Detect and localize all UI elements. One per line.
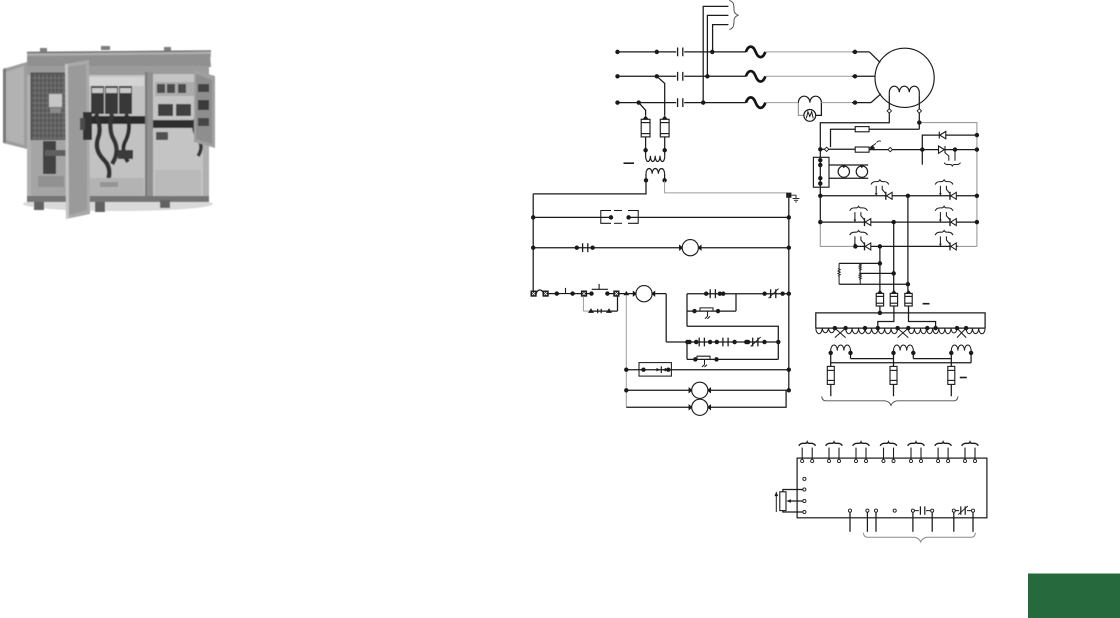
node TC1 left bbox=[763, 292, 766, 295]
PT fuse FU1 bbox=[641, 116, 650, 137]
SCR 3B bbox=[935, 231, 956, 251]
node phase C at motor bbox=[853, 101, 856, 104]
wire board lead 7 bbox=[953, 512, 955, 532]
wire field rheostat rung bbox=[820, 148, 855, 150]
node start rung bbox=[555, 292, 558, 295]
wire transfer link bbox=[687, 326, 778, 359]
bypass diode arrow 1 bbox=[588, 308, 594, 313]
node start PB right bbox=[606, 292, 609, 295]
output fuse 3 bbox=[948, 366, 955, 384]
node phase C tap bbox=[637, 101, 640, 104]
node contact lead right bbox=[591, 246, 594, 249]
output terminal 7 bbox=[952, 509, 955, 512]
wire field lead right bbox=[918, 95, 920, 109]
autotransformer winding section 4 bbox=[966, 328, 985, 334]
firing circuit brace bbox=[944, 163, 960, 166]
wire lower bypass bbox=[687, 358, 778, 360]
wire P1 bottom lead bbox=[783, 511, 803, 512]
node box terminal 2 bbox=[819, 163, 822, 166]
wire fuse tails bbox=[831, 384, 952, 396]
wire riser line 1 to source bbox=[703, 6, 728, 102]
secondary winding B bbox=[894, 345, 914, 351]
D2 cathode tick bbox=[954, 150, 956, 161]
terminal pad pot wiper bbox=[803, 499, 806, 502]
field fuse 3 bbox=[905, 290, 912, 306]
PT fuse FU2 bbox=[660, 116, 669, 137]
SCR 1B bbox=[935, 180, 956, 200]
relay coil M bbox=[633, 286, 654, 302]
wire phase A to motor (CT run) bbox=[765, 51, 852, 53]
bypass rise right bbox=[617, 296, 619, 311]
input pin pair 4 bbox=[880, 442, 897, 463]
wire rectifier DC bus bbox=[816, 313, 985, 328]
contactor contact M phase B bbox=[678, 72, 683, 81]
relay test block housing bbox=[639, 363, 671, 377]
power fuse phase B bbox=[746, 71, 766, 82]
dark bus across middle bbox=[88, 116, 189, 124]
output terminal 4 bbox=[893, 509, 896, 512]
timed contact TC1 bbox=[771, 289, 776, 298]
node FU1 lead bbox=[644, 149, 647, 152]
node row1 drop bbox=[906, 194, 909, 197]
P1 direction arrow bbox=[775, 496, 777, 513]
potentiometer P1 bbox=[780, 492, 786, 511]
field rheostat R2 bbox=[855, 147, 869, 152]
node bypass left bbox=[693, 310, 696, 313]
terminal F1 diamond bbox=[887, 109, 891, 113]
bypass diode arrow 2 bbox=[606, 308, 612, 313]
node rheostat rung at rail bbox=[819, 148, 822, 151]
terminal diamond right bbox=[888, 147, 892, 151]
wire board lead 5 bbox=[912, 512, 914, 532]
node phase B tap bbox=[655, 75, 658, 78]
wire coil rung C1 bbox=[626, 389, 789, 391]
feedback contact bbox=[915, 510, 931, 512]
left open door bbox=[3, 62, 27, 149]
node TC2 right bbox=[763, 340, 766, 343]
terminal box bbox=[813, 157, 829, 187]
balancing resistor network bbox=[838, 263, 861, 284]
wire FU1 to transformer bbox=[645, 137, 647, 156]
node PB1 right bbox=[571, 292, 574, 295]
ammeter A bbox=[804, 110, 816, 122]
D2 gate lead bbox=[945, 153, 949, 161]
wire DC bus drop B bbox=[893, 222, 895, 293]
middle open door (front) bbox=[65, 60, 90, 219]
wire board lead 3 bbox=[875, 512, 877, 532]
contactor contact M phase C bbox=[678, 98, 683, 107]
wire discharge resistor R1 leads bbox=[831, 129, 920, 147]
wire rung A bypass bbox=[687, 310, 736, 312]
right bay interior bbox=[153, 74, 203, 198]
wire field lead left down bbox=[820, 113, 889, 158]
power fuse phase C bbox=[746, 97, 766, 108]
temperature switch TS2 bbox=[697, 356, 710, 367]
contact CR1 bbox=[583, 243, 588, 252]
polarity mark bbox=[624, 162, 635, 164]
synchronous motor M1 bbox=[875, 48, 934, 107]
wire gray rail to lower rungs bbox=[625, 296, 627, 408]
wire secondary C leads bbox=[951, 351, 971, 367]
node rail X1 rung1 bbox=[532, 216, 535, 219]
wire board lead 6 bbox=[931, 512, 933, 532]
wire rung A bypass left drop bbox=[686, 294, 688, 327]
output terminal 1 bbox=[848, 509, 851, 512]
wire phase A incoming bbox=[617, 51, 677, 53]
wire motor lead A diagonal bbox=[869, 52, 880, 63]
node row2 drop bbox=[892, 221, 895, 224]
node rung2 at rail X2 bbox=[787, 246, 790, 249]
node drawout stab right bbox=[627, 216, 630, 219]
wire SCR row 1 bbox=[820, 195, 977, 197]
node contact lead bbox=[575, 246, 578, 249]
wire coupler top bbox=[829, 164, 868, 166]
diode D1 bbox=[939, 131, 946, 138]
wire secondary B leads bbox=[894, 351, 914, 367]
secondary winding C bbox=[951, 345, 971, 351]
ground terminal block bbox=[786, 193, 791, 198]
reactor coil 1 bbox=[838, 166, 849, 177]
output fuse 1 bbox=[827, 366, 834, 384]
wire phase C continue to motor bbox=[821, 102, 852, 104]
node row3 left bbox=[854, 245, 857, 248]
node C1 at rail X2 bbox=[787, 389, 790, 392]
wire network bottom bbox=[839, 283, 908, 285]
crossover X2 bbox=[898, 328, 909, 338]
node phase B at motor bbox=[853, 75, 856, 78]
polarity mark minus bbox=[923, 303, 930, 305]
node row2 right bbox=[975, 221, 978, 224]
secondary winding A bbox=[831, 345, 851, 351]
node link at rung B bbox=[777, 340, 780, 343]
bypass drop left bbox=[582, 296, 584, 311]
timed contact TC2 bbox=[753, 338, 758, 347]
node C1 left bbox=[625, 389, 628, 392]
polarity mark minus bbox=[960, 377, 967, 379]
wire riser line 3 to source bbox=[713, 25, 729, 52]
node test rung left bbox=[625, 368, 628, 371]
wire tap phase B to fuse FU2 bbox=[657, 76, 665, 115]
wire coil M drop bbox=[665, 294, 667, 342]
wire fuse1 to bus bbox=[879, 306, 881, 313]
wire P1 wiper bbox=[790, 500, 803, 502]
node test block right bbox=[667, 368, 670, 371]
terminal diamond left bbox=[824, 147, 828, 151]
node row1 right bbox=[975, 194, 978, 197]
floor shadow bbox=[23, 197, 213, 211]
node rung1 at rail X2 bbox=[787, 216, 790, 219]
wire network top bbox=[839, 262, 880, 264]
output fuse 2 bbox=[890, 366, 897, 384]
brace DC output bbox=[822, 396, 958, 405]
wire left rail X1 bbox=[532, 194, 534, 291]
node bypass right bbox=[716, 310, 719, 313]
wire secondary A leads bbox=[831, 351, 851, 367]
node lower bypass b bbox=[715, 358, 718, 361]
node winding taps bbox=[833, 327, 836, 330]
terminal pad pot top bbox=[803, 488, 806, 491]
field panel enclosure (gray) bbox=[820, 123, 977, 247]
wire relay test rung bbox=[626, 369, 789, 371]
field fuse 1 bbox=[876, 290, 883, 306]
ground bbox=[793, 199, 800, 203]
wire riser line 2 to source bbox=[707, 15, 728, 76]
wire fuse3 to winding bbox=[909, 306, 936, 328]
node row1 rail bbox=[819, 194, 822, 197]
node box terminal 3 bbox=[819, 177, 822, 180]
node phase A at motor bbox=[853, 50, 856, 53]
contact TD1 bbox=[710, 289, 715, 298]
control module board bbox=[797, 458, 987, 518]
node secondary right bbox=[663, 179, 666, 182]
wire tap phase C to fuse FU1 bbox=[639, 103, 646, 116]
bypass wire bbox=[583, 310, 595, 312]
wire rung A bypass right rise bbox=[735, 294, 737, 311]
node TC1 right bbox=[781, 292, 784, 295]
temperature switch TS1 bbox=[700, 308, 713, 319]
contactor contact M phase A bbox=[678, 48, 683, 57]
field fuse 2 bbox=[890, 290, 897, 306]
terminal block TB2 bbox=[543, 291, 548, 296]
control transformer T1 secondary bbox=[646, 168, 665, 173]
wire phase C incoming bbox=[617, 102, 677, 104]
node rung B mid bbox=[733, 340, 736, 343]
wire motor lead C diagonal bbox=[871, 94, 881, 103]
relay coil TD bbox=[689, 382, 710, 398]
right open door bbox=[194, 70, 215, 148]
rheostat adjust arrow bbox=[870, 143, 877, 148]
power fuse phase A bbox=[746, 47, 766, 58]
node FU2 lead bbox=[663, 149, 666, 152]
node secondary left bbox=[644, 179, 647, 182]
control transformer T1 primary bbox=[646, 156, 665, 162]
wire interlock rung A bbox=[687, 293, 789, 295]
bypass contact bbox=[598, 309, 602, 313]
wire board lead 1 bbox=[849, 512, 851, 532]
feedback contact adjustable bbox=[956, 510, 972, 512]
node riser junction phase C bbox=[702, 101, 705, 104]
node fuse1 bus bbox=[878, 311, 881, 314]
wire fuse2 to winding bbox=[878, 306, 894, 328]
test block contact bbox=[657, 368, 661, 372]
terminal pad spare bbox=[803, 477, 806, 480]
coupler triangle marks bbox=[842, 165, 865, 168]
SCR 2B bbox=[935, 206, 956, 226]
node row2 rail bbox=[819, 221, 822, 224]
node rung B tap2 bbox=[745, 340, 748, 343]
reactor coil 2 bbox=[856, 166, 867, 177]
wire rung1 (drawout device) bbox=[533, 216, 612, 218]
node secondary terminals bbox=[829, 351, 832, 354]
input pin pair 3 bbox=[853, 442, 870, 463]
relay coil TC bbox=[689, 399, 710, 415]
relay coil CR bbox=[680, 240, 701, 256]
node start PB left bbox=[590, 292, 593, 295]
wire to ground bbox=[791, 195, 796, 198]
wire coil rung C2 bbox=[626, 390, 786, 407]
input pin pair 2 bbox=[826, 442, 843, 463]
output terminal 8 bbox=[971, 509, 974, 512]
terminal block TB3 bbox=[581, 291, 586, 296]
connection arrow bbox=[624, 291, 630, 295]
node test rung at rail X2 bbox=[787, 368, 790, 371]
terminal block TB4 bbox=[614, 291, 619, 296]
SCR 2A bbox=[850, 206, 871, 226]
output terminal 2 bbox=[866, 509, 869, 512]
ammeter box drop bbox=[798, 103, 804, 116]
node row3 drop bbox=[878, 245, 881, 248]
wire phase A to fuse bbox=[684, 51, 746, 53]
wire rung B bbox=[666, 341, 778, 343]
wire series link A-B bbox=[851, 358, 894, 360]
SCR 1A bbox=[871, 180, 892, 200]
discharge resistor R1 bbox=[855, 127, 869, 132]
node CR2 left bbox=[695, 340, 698, 343]
wire SCR row 2 bbox=[820, 221, 977, 223]
wire DC bus drop C bbox=[879, 246, 881, 293]
node network mid bbox=[892, 272, 895, 275]
node D1 at enclosure bbox=[975, 134, 978, 137]
wire secondary left lead bbox=[533, 174, 646, 194]
wire coupler bottom bbox=[829, 177, 868, 179]
node diode branch tee bbox=[921, 148, 924, 151]
node rail top terminal bbox=[819, 159, 822, 162]
incoming line cable brace bbox=[729, 0, 738, 29]
node CR3 right bbox=[715, 340, 718, 343]
SCR 3A bbox=[850, 231, 871, 251]
wire phase B incoming bbox=[617, 75, 677, 77]
left bay mesh screen bbox=[31, 73, 73, 140]
wire field lead right down bbox=[918, 113, 920, 129]
wire secondary right to ground terminal (shield) bbox=[665, 181, 787, 193]
crossover X1 bbox=[835, 328, 846, 338]
node phase C terminal bbox=[616, 101, 619, 104]
node TD1 left bbox=[705, 292, 708, 295]
node D2 at enclosure bbox=[975, 148, 978, 151]
cabinet face bbox=[27, 66, 209, 199]
left bay lower panel bbox=[31, 140, 73, 196]
autotransformer winding section 1 bbox=[816, 328, 835, 334]
cabinet roof bbox=[27, 52, 211, 57]
input pin pair 1 bbox=[799, 442, 816, 463]
wire phase C to meter bbox=[765, 102, 798, 104]
brace board outputs bbox=[863, 533, 975, 542]
node rung A mid bbox=[722, 292, 725, 295]
autotransformer winding section 3 bbox=[908, 328, 957, 334]
motor field winding bbox=[889, 86, 919, 95]
wire lower bypass drop bbox=[686, 342, 688, 359]
contact CR2 bbox=[699, 338, 704, 347]
wire rung2 bbox=[533, 247, 682, 249]
start rung wire bbox=[548, 293, 560, 295]
wire R2 to diode branch bbox=[869, 149, 977, 151]
terminal pad pot bottom bbox=[803, 510, 806, 513]
diode D2 (field SCR) bbox=[939, 146, 946, 153]
crossover X3 bbox=[957, 328, 966, 338]
wire phase B to fuse bbox=[684, 75, 746, 77]
wire diode D1 branch bbox=[922, 135, 977, 165]
input pin pair 7 bbox=[962, 442, 979, 463]
node network top bbox=[878, 262, 881, 265]
wire phase C to fuse bbox=[684, 102, 746, 104]
input pin pair 6 bbox=[935, 442, 952, 463]
control fuse arc bbox=[536, 290, 543, 294]
drawout disconnect housing bbox=[601, 211, 638, 224]
wire board lead 2 bbox=[866, 512, 868, 532]
node riser junction phase A bbox=[711, 50, 714, 53]
wire FU2 to transformer bbox=[664, 137, 666, 156]
node drawout stab left bbox=[609, 216, 612, 219]
wire right rail X2 bbox=[788, 198, 790, 390]
node lower bypass a bbox=[694, 358, 697, 361]
cables middle bay bbox=[96, 114, 109, 180]
node TD1 right bbox=[718, 292, 721, 295]
node network bottom bbox=[906, 283, 909, 286]
wire secondary right lead bbox=[664, 174, 666, 181]
cabinet base bbox=[27, 196, 209, 202]
wire DC bus drop A bbox=[907, 196, 909, 293]
node rung B tap bbox=[688, 340, 691, 343]
wire field lead left bbox=[888, 95, 890, 109]
wire board lead 8 bbox=[972, 512, 974, 532]
wire SCR row 3 bbox=[855, 245, 957, 247]
node CR2 right bbox=[709, 340, 712, 343]
node inside test block bbox=[642, 368, 645, 371]
node lower bypass top bbox=[686, 340, 689, 343]
stop pushbutton PB1 bbox=[557, 288, 573, 294]
contact CR3 bbox=[723, 338, 728, 347]
node TC2 left bbox=[746, 340, 749, 343]
start pushbutton PB2 bbox=[592, 284, 608, 289]
green footer block bbox=[1028, 574, 1120, 618]
wire exciter rail left bbox=[819, 158, 821, 222]
middle bay interior bbox=[88, 75, 145, 198]
input pin pair 5 bbox=[908, 442, 925, 463]
node phase A terminal bbox=[616, 50, 619, 53]
output terminal 6 bbox=[931, 509, 934, 512]
autotransformer winding section 2 bbox=[846, 328, 898, 334]
wire network mid bbox=[860, 272, 894, 274]
output terminal 3 bbox=[874, 509, 877, 512]
terminal block TB1 bbox=[531, 291, 536, 296]
terminal F2 diamond bbox=[917, 109, 921, 113]
node field right lead bbox=[918, 121, 921, 124]
wire series link B-C bbox=[913, 358, 951, 360]
node box terminal 4 bbox=[819, 182, 822, 185]
current transformer CT bbox=[798, 96, 821, 102]
output terminal 5 bbox=[911, 509, 914, 512]
node rail X1 rung2 bbox=[532, 246, 535, 249]
node rung A at rail X2 bbox=[787, 292, 790, 295]
wire phase B to motor (CT run) bbox=[765, 75, 852, 77]
bay divider bbox=[145, 72, 153, 202]
wire autotransformer line bbox=[816, 327, 985, 329]
node phase B terminal bbox=[616, 75, 619, 78]
node phase A tap bbox=[655, 50, 658, 53]
node riser junction phase B bbox=[706, 75, 709, 78]
wire P1 top lead bbox=[783, 490, 803, 492]
wire return bus bbox=[831, 362, 971, 364]
